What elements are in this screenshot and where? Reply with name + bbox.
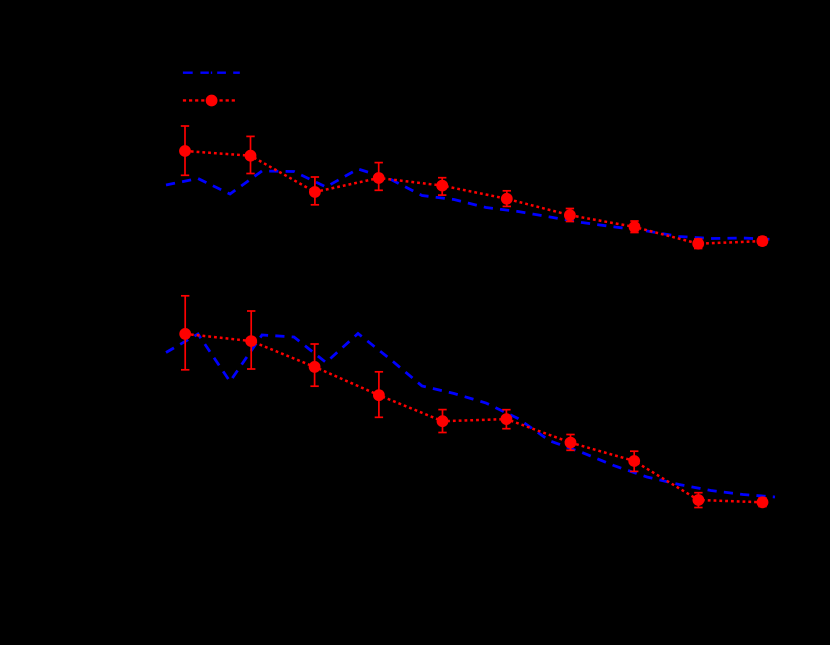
- marker bot M9: [693, 494, 705, 506]
- marker bot M5: [437, 415, 449, 427]
- error bar bot T3: [310, 344, 318, 386]
- bottom subplot: blue dashed series: [166, 334, 775, 498]
- bottom subplot: red dotted series line: [185, 334, 762, 502]
- error bar top T10: [758, 237, 766, 245]
- error bar bot T4: [375, 372, 383, 418]
- error bar bot T8: [630, 451, 638, 471]
- marker top M7: [564, 209, 576, 221]
- error bar bot T7: [566, 435, 574, 451]
- marker top M10: [757, 235, 769, 247]
- marker top M9: [692, 238, 704, 250]
- error bar top T1: [181, 126, 189, 175]
- error bar top T8: [630, 221, 638, 233]
- marker top M1: [179, 145, 191, 157]
- marker bot M7: [565, 437, 577, 449]
- error bar top T5: [438, 178, 446, 195]
- marker top M8: [629, 221, 641, 233]
- marker bot M8: [628, 455, 640, 467]
- error bar bot T10: [758, 498, 766, 507]
- error bar top T6: [503, 191, 511, 207]
- error bar bot T9: [694, 493, 702, 508]
- marker top M2: [245, 150, 257, 162]
- marker bot M1: [179, 328, 191, 340]
- marker bot M6: [501, 413, 513, 425]
- legend red marker: [206, 95, 218, 107]
- marker bot M4: [373, 389, 385, 401]
- marker top M6: [501, 193, 513, 205]
- top subplot: blue dashed series: [166, 169, 775, 240]
- error bar top T7: [566, 209, 574, 222]
- marker top M5: [436, 180, 448, 192]
- error bar top T2: [246, 136, 254, 173]
- marker top M3: [309, 186, 321, 198]
- legend red dotted sample: [183, 99, 238, 101]
- error bar top T3: [311, 177, 319, 205]
- top subplot: red dotted series line: [185, 151, 762, 244]
- error bar top T9: [694, 239, 702, 249]
- error bar top T4: [375, 163, 383, 191]
- error bar bot T6: [502, 410, 510, 429]
- error bar bot T1: [181, 296, 189, 370]
- error bar bot T2: [247, 311, 255, 369]
- marker bot M10: [757, 496, 769, 508]
- marker top M4: [373, 172, 385, 184]
- legend blue dashed sample: [183, 71, 240, 73]
- marker bot M3: [309, 361, 321, 373]
- marker bot M2: [245, 335, 257, 347]
- error bar bot T5: [438, 410, 446, 433]
